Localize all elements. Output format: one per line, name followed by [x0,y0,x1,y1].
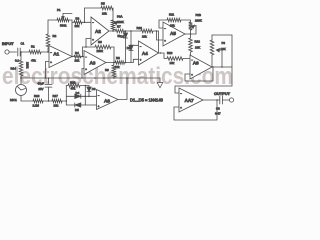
svg-text:R18: R18 [70,80,76,84]
svg-text:22k: 22k [75,59,80,63]
svg-text:A1: A1 [53,52,59,58]
svg-text:R4: R4 [75,51,79,55]
svg-text:D3: D3 [92,87,96,91]
svg-text:INPUT: INPUT [2,41,14,46]
svg-text:25V: 25V [38,87,43,91]
svg-text:47µF: 47µF [37,81,44,85]
svg-text:10K: 10K [221,47,226,51]
svg-text:C3: C3 [216,106,220,110]
svg-text:R1: R1 [31,45,35,49]
svg-text:A4: A4 [142,51,148,57]
svg-text:R12: R12 [195,40,201,44]
svg-text:22k: 22k [102,12,107,16]
svg-text:A2: A2 [95,29,101,35]
svg-text:A3: A3 [90,61,96,67]
svg-text:D1: D1 [121,34,125,38]
svg-text:220K: 220K [195,19,202,23]
svg-text:D5: D5 [75,108,79,112]
svg-text:R3: R3 [76,16,80,20]
svg-text:R16: R16 [34,94,40,98]
svg-text:R5: R5 [101,2,105,6]
svg-text:R10: R10 [137,26,143,30]
svg-text:R13: R13 [167,51,173,55]
svg-text:47k: 47k [31,59,36,63]
svg-text:10k: 10k [170,61,175,65]
svg-text:C1: C1 [21,41,25,45]
svg-text:MIC1: MIC1 [10,98,17,102]
svg-text:22k: 22k [142,35,147,39]
svg-text:220k: 220k [97,49,104,53]
svg-text:R2: R2 [53,34,57,38]
svg-text:R6: R6 [98,40,102,44]
svg-text:R11: R11 [169,13,174,17]
svg-text:D1...D5 = 1N4148: D1...D5 = 1N4148 [130,98,164,103]
svg-text:P2B: P2B [196,13,202,17]
svg-text:R14: R14 [11,67,17,71]
svg-text:R8: R8 [116,56,120,60]
svg-text:A5: A5 [170,31,176,37]
svg-text:R17: R17 [53,94,59,98]
svg-text:D4: D4 [76,91,80,95]
svg-text:22k: 22k [170,23,175,27]
svg-text:P3: P3 [222,41,226,45]
svg-text:2.2M: 2.2M [33,104,40,108]
svg-text:500k: 500k [60,24,67,28]
svg-text:22k: 22k [75,24,80,28]
svg-text:10K: 10K [195,46,200,50]
svg-text:D2: D2 [127,46,131,50]
svg-text:P1: P1 [57,8,61,12]
svg-text:A8: A8 [104,98,110,104]
svg-text:R9: R9 [105,68,109,72]
svg-text:22k: 22k [54,104,59,108]
svg-text:OUTPUT: OUTPUT [214,91,231,96]
svg-text:AA7: AA7 [185,98,195,104]
svg-text:P2A: P2A [117,15,123,19]
svg-text:0.47: 0.47 [215,111,221,115]
svg-text:R7: R7 [117,24,121,28]
svg-text:A6: A6 [193,61,199,67]
svg-text:220k: 220k [26,62,30,69]
